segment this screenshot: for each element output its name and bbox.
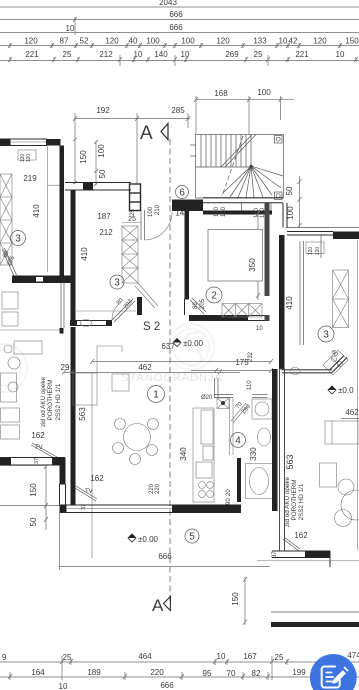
svg-text:10: 10 [256,326,263,332]
svg-text:100: 100 [148,206,154,217]
svg-text:100: 100 [257,88,271,97]
svg-text:219: 219 [23,174,37,183]
svg-text:2: 2 [211,291,217,302]
svg-text:zid od AKU opeke: zid od AKU opeke [40,376,47,427]
svg-text:462: 462 [138,363,152,372]
svg-text:STANOGRADNJA: STANOGRADNJA [121,372,223,384]
svg-text:90: 90 [226,498,232,505]
svg-text:120: 120 [105,37,119,46]
svg-text:220: 220 [155,483,161,494]
svg-text:5: 5 [189,532,195,543]
svg-text:162: 162 [90,474,104,483]
svg-text:192: 192 [96,106,110,115]
svg-text:189: 189 [87,668,101,677]
svg-text:10: 10 [181,50,190,59]
svg-text:POROTHERM: POROTHERM [47,380,54,421]
svg-text:zid od AKU opeke: zid od AKU opeke [284,476,291,527]
svg-text:563: 563 [78,407,87,421]
svg-text:37: 37 [34,458,40,464]
svg-text:666: 666 [158,552,172,561]
svg-text:50: 50 [98,169,107,178]
svg-text:±0.00: ±0.00 [138,535,159,544]
svg-text:410: 410 [32,204,41,218]
svg-text:221: 221 [295,50,309,59]
svg-text:232: 232 [248,351,254,362]
svg-text:120: 120 [214,206,220,217]
svg-text:187: 187 [97,212,111,221]
svg-text:150: 150 [231,592,240,606]
svg-text:150: 150 [345,37,359,46]
svg-text:2SS2 HD 1/1: 2SS2 HD 1/1 [55,383,62,420]
svg-text:100: 100 [181,37,195,46]
svg-text:120: 120 [313,37,327,46]
svg-text:25: 25 [254,50,263,59]
svg-text:10: 10 [336,50,345,59]
svg-text:3: 3 [114,278,120,289]
svg-text:6: 6 [179,188,185,199]
svg-text:164: 164 [31,668,45,677]
svg-text:167: 167 [243,652,257,661]
svg-text:1: 1 [153,390,159,401]
svg-text:25: 25 [128,216,136,223]
svg-text:20: 20 [226,489,232,496]
svg-text:110: 110 [247,380,253,390]
svg-text:10: 10 [279,37,288,46]
svg-text:212: 212 [99,50,113,59]
svg-text:10: 10 [66,24,75,33]
svg-text:340: 340 [179,447,188,461]
svg-text:199: 199 [292,668,306,677]
svg-text:162: 162 [31,431,45,440]
svg-text:2043: 2043 [159,0,177,7]
svg-text:285: 285 [171,106,185,115]
svg-text:A: A [140,123,153,144]
svg-text:25: 25 [130,209,136,216]
svg-text:666: 666 [169,23,183,32]
svg-text:350: 350 [248,258,257,272]
svg-text:210: 210 [155,204,161,215]
svg-text:666: 666 [160,681,174,690]
svg-text:37: 37 [272,551,278,558]
svg-text:100: 100 [146,37,160,46]
svg-text:410: 410 [285,296,294,310]
svg-text:25: 25 [275,653,284,662]
svg-text:221: 221 [25,50,39,59]
svg-text:25: 25 [63,50,72,59]
svg-text:464: 464 [138,652,152,661]
svg-text:40: 40 [129,37,138,46]
svg-text:S 2: S 2 [143,321,160,333]
svg-text:10: 10 [59,682,68,690]
svg-text:10: 10 [134,50,143,59]
svg-text:120: 120 [221,206,227,217]
svg-text:100: 100 [286,206,295,220]
svg-text:133: 133 [253,37,267,46]
svg-text:220: 220 [150,668,164,677]
svg-text:140: 140 [154,50,168,59]
svg-text:50: 50 [285,186,294,195]
svg-text:120: 120 [24,37,38,46]
svg-text:52: 52 [80,37,89,46]
svg-text:150: 150 [29,483,38,497]
svg-text:3: 3 [323,330,329,341]
svg-text:205: 205 [200,298,206,309]
svg-text:666: 666 [169,10,183,19]
svg-text:10: 10 [217,652,226,661]
svg-text:Ø20: Ø20 [201,395,213,401]
svg-text:162: 162 [294,531,308,540]
svg-text:120: 120 [216,37,230,46]
svg-text:2SS2 HD 1/1: 2SS2 HD 1/1 [298,483,305,520]
svg-text:4: 4 [235,436,241,447]
svg-text:50: 50 [29,517,38,526]
svg-text:120: 120 [26,154,32,163]
svg-text:269: 269 [225,50,239,59]
svg-text:150: 150 [79,150,88,164]
svg-text:87: 87 [60,37,69,46]
svg-text:410: 410 [80,247,89,261]
svg-text:474: 474 [347,651,359,660]
svg-text:168: 168 [214,89,228,98]
svg-text:9: 9 [2,653,7,662]
svg-text:25: 25 [63,653,72,662]
svg-text:330: 330 [249,447,258,461]
svg-text:212: 212 [99,228,113,237]
svg-text:120: 120 [308,247,314,256]
svg-text:563: 563 [285,454,295,469]
svg-text:42: 42 [289,37,298,46]
svg-text:100: 100 [97,144,106,158]
svg-text:A: A [152,596,164,615]
svg-text:120: 120 [315,247,321,256]
svg-text:POROTHERM: POROTHERM [291,480,298,521]
svg-text:462: 462 [345,408,359,417]
svg-text:±0.0: ±0.0 [338,386,354,395]
svg-text:3: 3 [15,234,21,245]
